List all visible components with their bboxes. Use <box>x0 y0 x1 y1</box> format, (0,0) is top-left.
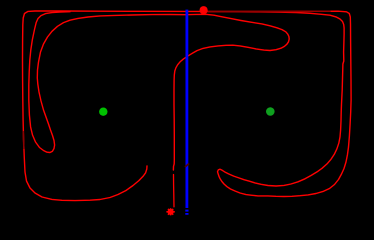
right equilibrium green dot <box>266 107 275 116</box>
blue separatrix line <box>185 10 188 208</box>
left equilibrium green dot <box>99 108 107 116</box>
trajectory segment to start marker (dark red) <box>208 10 330 12</box>
trajectory tail to end marker <box>173 175 176 207</box>
blue dash 1 <box>185 210 188 212</box>
dark overlap segment on left edge <box>22 131 25 149</box>
dark notch on blue line <box>185 164 189 168</box>
trajectory outer loop <box>23 11 352 201</box>
blue dash 2 <box>185 213 188 215</box>
trajectory inner spiral <box>29 12 289 170</box>
start marker red dot <box>200 6 208 14</box>
end marker red star <box>166 208 174 215</box>
